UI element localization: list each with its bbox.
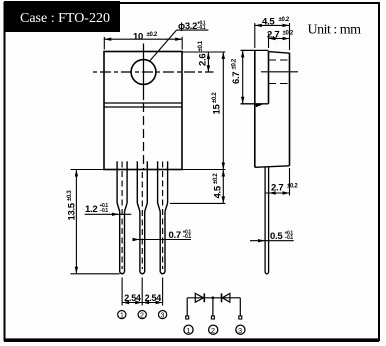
wire terminal 3 drop [239, 298, 241, 316]
schematic pin 1 [184, 325, 193, 334]
svg-text:2: 2 [211, 326, 215, 335]
side body front face [289, 53, 291, 166]
svg-text:4.5: 4.5 [213, 185, 224, 198]
svg-text:−0.1: −0.1 [100, 208, 109, 214]
svg-text:±0.1: ±0.1 [198, 40, 204, 51]
diode D1 [195, 293, 203, 302]
side tab/body boundary [268, 51, 270, 104]
side body bottom edge sloped [255, 166, 290, 168]
tab step line upper [104, 102, 182, 104]
schematic pin 2 [209, 325, 218, 334]
terminal 2 [211, 316, 214, 319]
svg-text:3: 3 [161, 313, 165, 320]
pin number 1 [118, 311, 126, 319]
pin number 2 [138, 311, 146, 319]
svg-text:2.7: 2.7 [271, 183, 283, 194]
svg-text:±0.2: ±0.2 [279, 17, 290, 23]
side hidden hole line lower [269, 83, 290, 85]
svg-text:1.2: 1.2 [85, 204, 97, 215]
svg-text:ϕ3.2: ϕ3.2 [178, 21, 197, 32]
svg-text:0.5: 0.5 [270, 231, 283, 242]
terminal 1 [186, 316, 189, 319]
node common cathode junction [212, 296, 215, 299]
dimension 2.7 +-0.2 bottom [289, 168, 291, 196]
wire terminal 2 drop [212, 298, 214, 316]
dimension 2.6 +-0.1 [182, 52, 225, 72]
lead 2 [137, 161, 147, 273]
svg-text:4.5: 4.5 [262, 17, 275, 28]
dimension 4.5 +-0.2 right [170, 170, 225, 204]
title box Case : FTO-220 [4, 1, 120, 32]
svg-text:2.54: 2.54 [124, 293, 141, 303]
terminal 3 [239, 316, 242, 319]
schematic pin 3 [236, 325, 245, 334]
svg-text:±0.2: ±0.2 [287, 184, 298, 190]
svg-text:3: 3 [238, 326, 242, 335]
svg-text:1: 1 [186, 326, 190, 335]
mounting hole [131, 60, 156, 85]
svg-text:2.6: 2.6 [198, 54, 209, 66]
side tab top edge [241, 49, 269, 51]
vertical centerline dashed part [143, 103, 145, 170]
pin number 3 [159, 311, 167, 319]
svg-text:2.54: 2.54 [145, 293, 162, 303]
lead 2 centerline [141, 172, 143, 269]
dimension phi 3.2 leader [150, 30, 177, 60]
lead 3 [158, 161, 168, 273]
dimension 2.54 pitch [122, 278, 163, 306]
svg-text:±0.2: ±0.2 [283, 31, 294, 37]
svg-text:10: 10 [133, 32, 143, 43]
dimension 13.5 +-0.3 left [71, 170, 120, 274]
side hole centerline [261, 71, 298, 73]
lead 1 centerline [121, 162, 123, 270]
wire top [187, 297, 240, 299]
svg-text:15: 15 [212, 104, 223, 115]
svg-text:6.7: 6.7 [231, 72, 242, 84]
dimension 0.7 lead thickness label [134, 239, 192, 241]
lead 3 centerline [162, 162, 164, 270]
svg-text:2.7: 2.7 [267, 30, 279, 41]
side hidden hole line upper [269, 59, 290, 61]
side shoulder chamfer wedge [256, 105, 263, 108]
dimension 0.5 lead thickness [250, 240, 294, 242]
vertical centerline solid part [143, 44, 145, 101]
dimension 15 +-0.2 [222, 52, 224, 170]
side tab rear face [254, 50, 256, 167]
side body top edge sloped [269, 52, 290, 54]
dimension 4.5 +-0.2 top [255, 23, 290, 50]
svg-text:±0.2: ±0.2 [147, 32, 158, 38]
wire terminal 1 drop [186, 298, 188, 316]
dimension 6.7 +-0.2 [242, 50, 244, 103]
svg-text:−0.1: −0.1 [285, 235, 294, 241]
svg-text:±0.2: ±0.2 [213, 173, 219, 184]
dimension 10 +-0.2 [104, 37, 182, 50]
svg-text:Unit : mm: Unit : mm [308, 23, 362, 38]
svg-text:Case : FTO-220: Case : FTO-220 [20, 11, 110, 26]
svg-text:−0.1: −0.1 [183, 234, 192, 240]
svg-text:2: 2 [140, 313, 144, 320]
border frame bottom thick [4, 338, 379, 342]
lead 1 [117, 161, 127, 273]
side lead [265, 166, 269, 274]
svg-text:±0.2: ±0.2 [232, 58, 238, 69]
dimension 2.7 +-0.2 top [268, 34, 270, 49]
svg-text:0.7: 0.7 [169, 230, 181, 241]
horizontal hole centerline [93, 71, 214, 73]
diode D2 [221, 293, 223, 302]
svg-text:−0.1: −0.1 [197, 25, 206, 31]
svg-text:1: 1 [120, 313, 124, 320]
svg-text:13.5: 13.5 [67, 202, 78, 220]
side tab shoulder [241, 103, 269, 105]
body outline [104, 52, 182, 170]
tab step line lower [104, 106, 182, 108]
svg-text:±0.2: ±0.2 [212, 92, 218, 103]
svg-text:±0.3: ±0.3 [67, 190, 73, 201]
